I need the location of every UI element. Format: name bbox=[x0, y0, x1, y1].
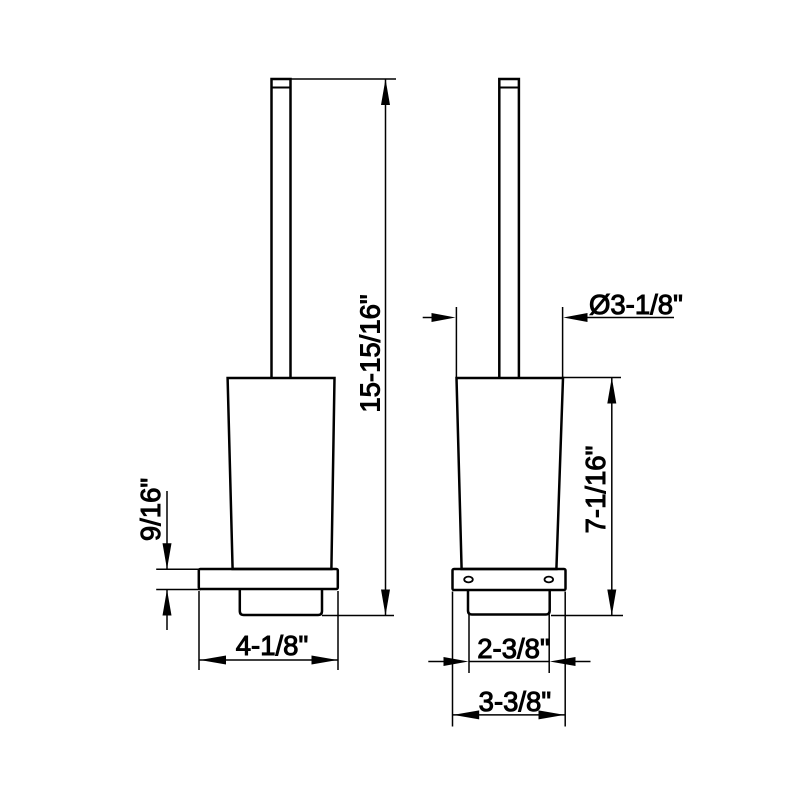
dimension 9/16" plate thickness bbox=[156, 491, 201, 630]
dimension 3-3/8" plate width side bbox=[453, 592, 566, 727]
dimension 2-3/8" bottom cap width bbox=[428, 615, 590, 674]
side view: mounting screw left bbox=[464, 577, 473, 583]
svg-text:2-3/8": 2-3/8" bbox=[477, 633, 549, 664]
dimension 4-1/8" plate width bbox=[199, 591, 338, 670]
svg-text:7-1/16": 7-1/16" bbox=[580, 446, 611, 534]
dimension 7-1/16" cup height bbox=[551, 378, 623, 616]
dimension Ø3-1/8" cup diameter bbox=[423, 307, 674, 377]
front view: wall plate bbox=[199, 569, 338, 589]
side view: mounting screw right bbox=[545, 577, 554, 583]
front view: cup body bbox=[228, 378, 335, 569]
svg-text:3-3/8": 3-3/8" bbox=[479, 686, 551, 717]
side view: holder bottom cap bbox=[468, 590, 550, 615]
front view: brush handle bbox=[272, 79, 291, 378]
svg-text:15-15/16": 15-15/16" bbox=[355, 294, 386, 412]
svg-text:Ø3-1/8": Ø3-1/8" bbox=[589, 289, 683, 320]
side view: wall plate bbox=[453, 569, 566, 590]
svg-text:9/16": 9/16" bbox=[135, 478, 166, 541]
front view: holder bottom cap bbox=[240, 589, 322, 615]
dimension 15-15/16" overall height bbox=[291, 79, 397, 616]
side view: brush handle bbox=[499, 79, 519, 378]
svg-text:4-1/8": 4-1/8" bbox=[236, 630, 308, 661]
side view: cup body bbox=[457, 378, 564, 569]
